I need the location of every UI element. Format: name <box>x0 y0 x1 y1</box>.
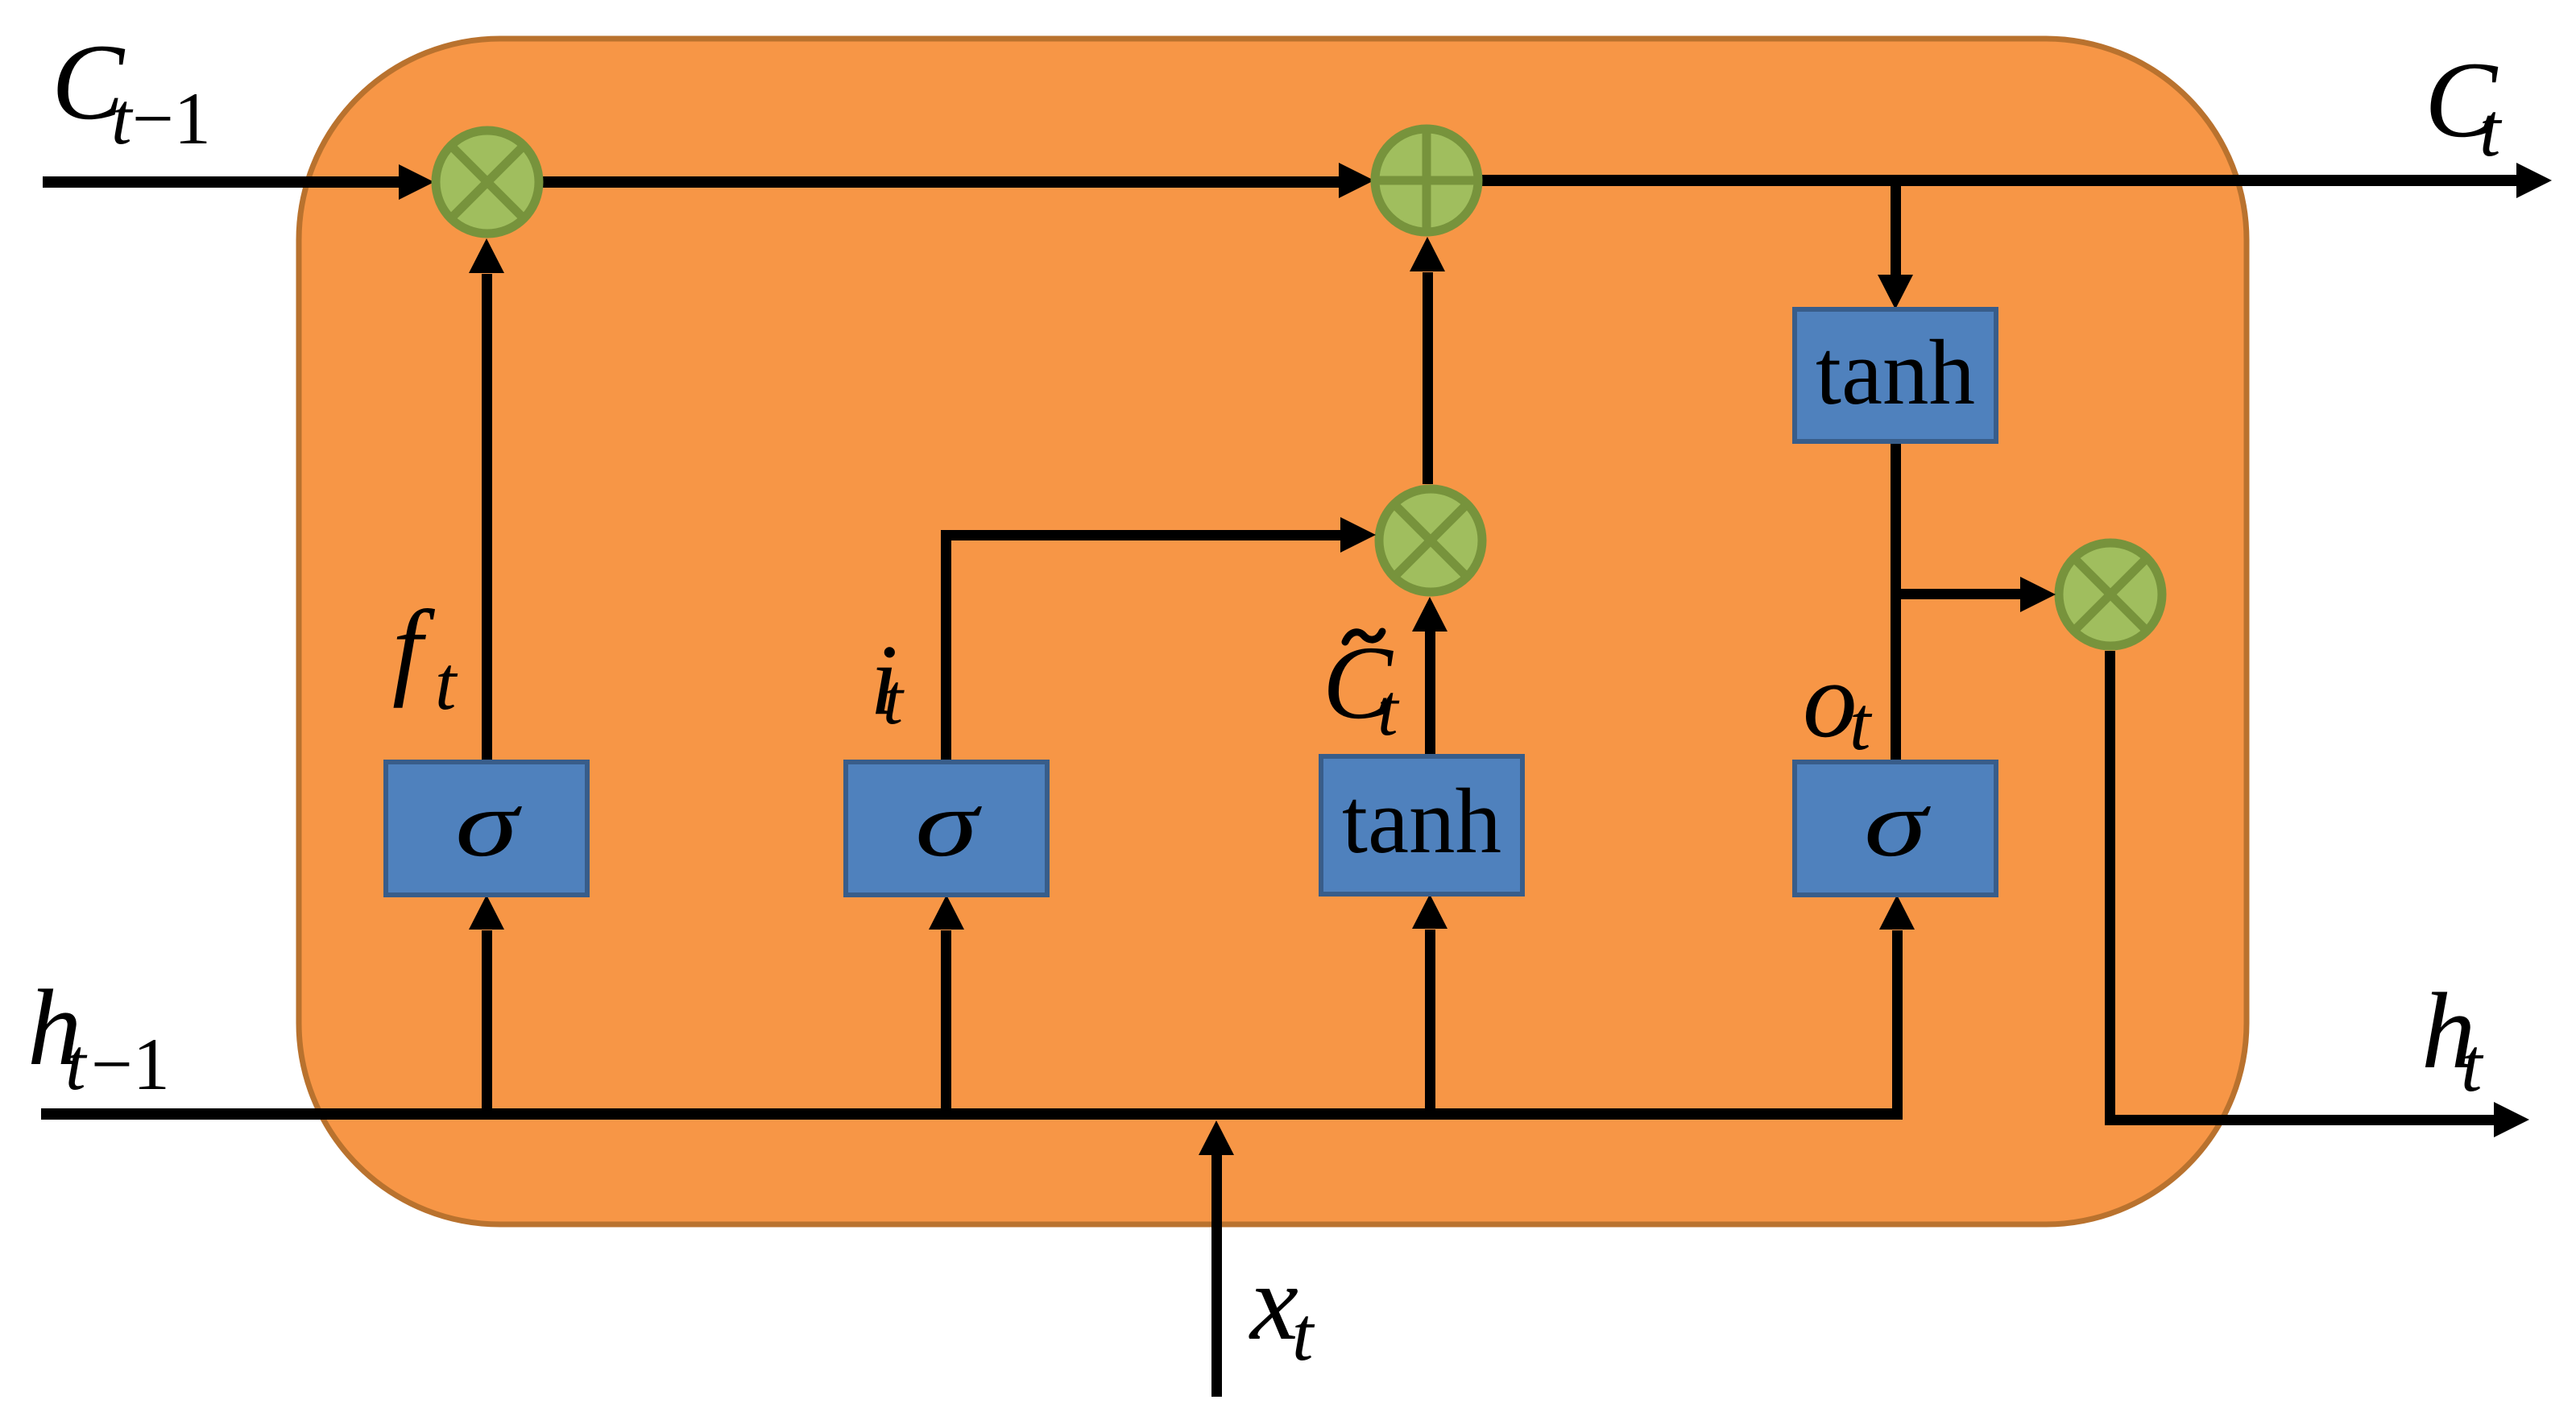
arrowhead into add <box>1339 163 1374 198</box>
sigma gate 1 (forget gate) <box>386 762 587 895</box>
wire: i(t) elbow from sigma 2 to multiply 2 <box>941 530 951 762</box>
svg-text:σ: σ <box>455 771 522 876</box>
wire: C~(t) from tanh 2 up to multiply 2 <box>1425 632 1435 756</box>
svg-text:t: t <box>2479 87 2503 172</box>
arrowhead into multiply 1 <box>399 164 434 200</box>
wire: branch right into multiply 3 <box>1895 589 2022 599</box>
svg-text:x: x <box>1249 1243 1298 1363</box>
svg-text:t: t <box>435 640 458 726</box>
wire: cell-state line between multiply 1 and add <box>538 176 1344 188</box>
sigma gate 3 (output gate) <box>1795 762 1996 895</box>
add node <box>1375 129 1478 232</box>
wire: up into sigma 1 <box>482 930 492 1108</box>
multiply node 3 (output gate) <box>2059 543 2162 646</box>
wire: tanh 1 down to sigma 3 <box>1891 441 1901 762</box>
arrowhead C(t) output <box>2516 163 2552 198</box>
svg-text:σ: σ <box>1864 771 1931 876</box>
wire: C(t-1) input line <box>43 176 403 188</box>
svg-text:−1: −1 <box>91 1023 170 1105</box>
svg-text:tanh: tanh <box>1816 321 1975 424</box>
wire: up into sigma 2 <box>941 930 951 1108</box>
arrowhead into tanh top box <box>1878 275 1913 309</box>
multiply node 1 (forget) <box>436 130 539 234</box>
multiply node 2 (input gate) <box>1379 489 1482 592</box>
svg-text:t: t <box>65 1023 88 1105</box>
tanh box 1 (cell-state tanh) <box>1795 309 1996 441</box>
LSTM cell body <box>299 39 2247 1224</box>
svg-text:t: t <box>883 660 905 739</box>
wire: cell-state output line <box>1481 175 2520 186</box>
wire: multiply 3 down and out to h(t) <box>2105 651 2115 1125</box>
sigma gate 2 (input gate) <box>846 762 1047 895</box>
svg-text:σ: σ <box>915 771 982 876</box>
svg-text:t: t <box>1292 1291 1315 1377</box>
svg-text:tanh: tanh <box>1342 770 1501 872</box>
wire: branch down to tanh <box>1891 180 1901 277</box>
wire: x(t) input from bottom <box>1211 1155 1222 1397</box>
svg-text:t: t <box>111 77 134 159</box>
wire: elbow up into sigma 3 <box>1892 930 1903 1114</box>
wire: from multiply 2 up to add <box>1423 272 1433 484</box>
svg-text:t: t <box>1849 681 1873 766</box>
tanh gate 2 (candidate) <box>1321 756 1522 894</box>
wire: up into tanh 2 <box>1425 930 1435 1108</box>
wire: f(t) from sigma 1 up to multiply 1 <box>482 274 492 762</box>
wire: h(t-1) input line along bottom <box>41 1108 1903 1120</box>
svg-text:t: t <box>2461 1022 2484 1108</box>
svg-text:t: t <box>1377 669 1400 751</box>
svg-text:−1: −1 <box>132 77 211 159</box>
